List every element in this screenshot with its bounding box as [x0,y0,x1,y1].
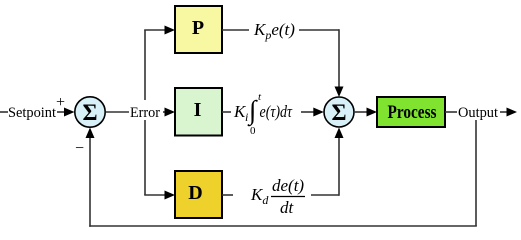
wire: S2 to Process [354,111,368,113]
svg-text:P: P [192,17,204,39]
svg-text:−: − [75,140,84,157]
wire: Kd label to corner [311,194,339,196]
wire: arrow to S2 left [301,111,314,113]
wire: setpoint stub from left edge [0,111,8,113]
svg-text:de(t): de(t) [272,176,304,195]
arrow into Process [367,108,378,117]
svg-text:0: 0 [250,125,256,137]
wire: corner down to S2 [338,29,340,89]
wire: feedback bottom rail [89,225,477,227]
svg-text:i: i [245,110,248,124]
block D [175,171,222,218]
wire: D output stub [222,194,233,196]
wire: setpoint to summing junction [57,111,67,113]
wire: P output [222,29,249,31]
svg-text:Error: Error [130,105,160,121]
svg-text:Output: Output [458,105,499,121]
wire: S1 to branch junction [106,111,130,113]
svg-text:dt: dt [280,198,295,217]
svg-text:∫: ∫ [247,95,258,127]
label Ki integral [233,91,293,137]
wire: branch to D [144,194,165,196]
arrow into S1 bottom [86,128,95,139]
wire: I output stub [222,111,231,113]
block I [175,88,222,136]
wire: corner up to S2 [338,136,340,196]
wire: output arrow [500,111,508,113]
block Process [377,97,445,127]
arrow into S2 top [335,87,344,98]
arrow output [507,108,518,117]
svg-text:Setpoint: Setpoint [8,105,57,121]
node Error label [130,100,161,121]
arrow into S1 left [64,108,75,117]
block P [175,6,222,53]
node Output label [458,101,499,121]
arrow into P [165,26,176,35]
svg-text:Σ: Σ [82,100,97,125]
svg-text:I: I [194,99,202,121]
wire: branch to P [144,29,165,31]
svg-text:+: + [56,94,65,111]
summing junction S2 [324,97,354,127]
wire: error to I [163,111,167,113]
wire: Process to Output [445,111,457,113]
svg-text:Process: Process [388,102,437,123]
arrow into D [165,191,176,200]
wire: branch vertical [144,30,146,195]
svg-text:Σ: Σ [331,100,346,125]
arrow into I [165,108,176,117]
svg-text:e(τ)dτ: e(τ)dτ [260,102,293,121]
wire: feedback up to S1 [89,136,91,227]
svg-text:Kpe(t): Kpe(t) [253,20,295,42]
svg-text:D: D [188,182,202,204]
wire: feedback down from output [475,120,477,226]
summing junction S1 [75,97,105,127]
arrow into S2 bottom [335,128,344,139]
wire: Kp label to corner [299,29,339,31]
label Kd de(t)/dt [250,176,305,217]
arrow into S2 left [313,108,324,117]
